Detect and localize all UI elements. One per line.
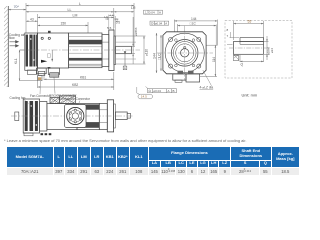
svg-text:B: B <box>173 89 175 93</box>
fan foot <box>24 133 33 136</box>
dim KL1 (left vertical) <box>19 50 38 81</box>
tolerance frame bottom (position of connectors) <box>148 89 177 93</box>
svg-text:7: 7 <box>227 34 229 38</box>
4-LZ label with leader <box>203 70 212 86</box>
front view centerlines <box>157 52 213 54</box>
airflow arrow into fan <box>41 60 47 63</box>
top view: flange <box>109 30 114 71</box>
svg-text:LM: LM <box>73 14 78 18</box>
dim 43 <box>26 20 38 22</box>
svg-text:A: A <box>124 66 126 70</box>
svg-text:144: 144 <box>153 53 157 59</box>
svg-text:LG: LG <box>104 15 109 19</box>
svg-text:4-⌀LZ dia: 4-⌀LZ dia <box>200 86 214 90</box>
detail: shaft <box>234 42 264 55</box>
svg-text:144: 144 <box>191 17 197 21</box>
detail: dim 55 <box>234 21 264 40</box>
svg-text:⌀28h6: ⌀28h6 <box>134 27 138 36</box>
top view encoder connector <box>48 68 59 74</box>
svg-text:55: 55 <box>248 20 252 24</box>
dim KB1 <box>44 72 114 90</box>
bottom view: front housing <box>99 104 107 130</box>
dim LL <box>26 8 114 30</box>
svg-text:8: 8 <box>227 28 229 32</box>
mounting pads <box>41 133 44 135</box>
wall (mounting surface with hatching) <box>4 6 8 87</box>
bottom view: fan connector box <box>50 98 60 104</box>
top view: ribbed motor body <box>69 33 102 68</box>
detail: right side shaft dia dims <box>264 36 269 60</box>
front view dim 144 top <box>174 20 217 46</box>
front view body circle <box>165 33 204 72</box>
centerline top view <box>20 49 140 51</box>
front view tolerance frame 2 <box>150 21 169 25</box>
svg-text:5.5: 5.5 <box>107 26 112 30</box>
svg-text:14.5: 14.5 <box>141 95 147 99</box>
front view square flange <box>163 32 206 74</box>
bottom view: flange <box>107 100 113 132</box>
svg-text:⊙: ⊙ <box>151 22 154 26</box>
svg-text:114: 114 <box>212 57 216 62</box>
dim LR <box>114 11 134 13</box>
dim LM <box>38 14 114 34</box>
front view tolerance frame top <box>144 10 163 14</box>
svg-text:□LC: □LC <box>190 22 197 26</box>
leader to tolerance frame <box>146 87 149 89</box>
svg-text:⊙: ⊙ <box>148 89 151 93</box>
dim 150 <box>38 22 88 33</box>
bottom view: fan block with grill bars <box>23 99 39 133</box>
top view: shaft <box>116 46 132 53</box>
dim KB2 <box>38 70 114 88</box>
detail: key cross section <box>234 55 239 60</box>
front view dim LC top <box>178 24 217 46</box>
svg-text:⌀24: ⌀24 <box>270 48 274 53</box>
small dim detail on housing <box>51 50 53 62</box>
svg-text:flow: flow <box>9 36 15 40</box>
label leaders <box>24 78 80 108</box>
bottom view: encoder connector box <box>60 96 76 104</box>
svg-text:KB1: KB1 <box>80 75 86 79</box>
cap screws <box>175 39 178 42</box>
svg-text:Q: Q <box>241 62 244 66</box>
detail box (dashed) <box>225 21 292 79</box>
detail: key <box>240 38 264 42</box>
top view: front housing <box>102 35 109 67</box>
oval label near bottom view <box>138 94 153 99</box>
bottom view: rear cap <box>40 102 47 132</box>
detail: key height dims <box>227 32 239 44</box>
dim 70* wall clearance <box>8 9 26 11</box>
svg-text:150: 150 <box>61 22 67 26</box>
front view right dim <box>200 45 217 76</box>
bolt holes <box>169 38 173 42</box>
svg-text:⌀0.04: ⌀0.04 <box>153 89 161 93</box>
svg-text:A: A <box>168 89 170 93</box>
svg-text:43: 43 <box>30 18 34 22</box>
eyebolt boss on top <box>48 31 51 33</box>
detail centerline <box>229 47 268 49</box>
vertical dim LB dia (spigot) <box>116 36 146 64</box>
bottom view: motor body smooth section <box>47 104 77 130</box>
svg-text:A: A <box>165 22 167 26</box>
vertical dim S dia (shaft) <box>132 17 135 64</box>
detail: dim Q <box>240 55 264 62</box>
shaft circle <box>181 49 189 57</box>
svg-text:70*: 70* <box>14 5 20 9</box>
svg-text:LR: LR <box>131 6 136 10</box>
front view left dim 144 <box>156 33 158 73</box>
svg-text:⌀0.04: ⌀0.04 <box>155 22 163 26</box>
bottom view: servomotor connector (round, on body) <box>65 105 87 128</box>
svg-text:Unit: mm: Unit: mm <box>242 93 258 98</box>
top view: encoder/fan housing smooth section <box>38 33 69 68</box>
dim L <box>26 3 134 46</box>
front view left dim LC <box>160 35 162 71</box>
bottom view: fan intake plug <box>15 112 19 121</box>
svg-text:□LC: □LC <box>157 53 161 60</box>
spec table <box>6 146 300 176</box>
svg-text:⌀110: ⌀110 <box>144 49 148 56</box>
svg-text:KL1: KL1 <box>14 58 18 64</box>
top view: rear cap with fan grill bars <box>25 33 38 70</box>
svg-text:0.04: 0.04 <box>149 11 155 15</box>
svg-text:KB2: KB2 <box>72 83 78 87</box>
datum A flag <box>124 51 127 53</box>
bottom view: shaft <box>115 112 127 120</box>
footnote <box>4 138 247 143</box>
bottom view centerline <box>11 115 134 117</box>
svg-text:A: A <box>159 11 161 15</box>
svg-text:LL: LL <box>68 8 72 12</box>
bottom view: ribbed body <box>77 104 99 130</box>
svg-text:Fan Connector: Fan Connector <box>30 94 51 98</box>
svg-text:L: L <box>79 2 81 6</box>
front view bottom connectors <box>173 74 186 80</box>
svg-text:⊥: ⊥ <box>144 11 147 15</box>
pilot circles <box>171 40 198 67</box>
screw holes <box>41 37 43 39</box>
top view fan connector <box>36 68 46 74</box>
